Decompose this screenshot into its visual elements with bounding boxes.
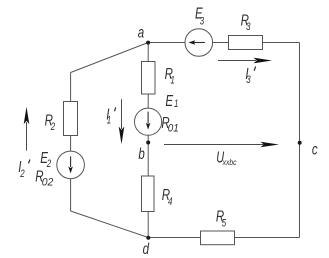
svg-text:5: 5 (222, 217, 227, 230)
svg-text:c: c (312, 140, 318, 158)
svg-text:d: d (143, 239, 150, 257)
svg-text:E: E (165, 91, 173, 109)
svg-text:3: 3 (246, 21, 251, 34)
svg-text:01: 01 (168, 123, 179, 135)
svg-text:1: 1 (107, 114, 111, 127)
svg-text:4: 4 (168, 196, 172, 209)
svg-text:xxbc: xxbc (222, 157, 237, 167)
svg-text:1: 1 (170, 74, 174, 87)
svg-text:b: b (138, 144, 145, 162)
svg-text:2: 2 (19, 168, 25, 181)
svg-text:2: 2 (46, 158, 52, 171)
svg-text:1: 1 (174, 98, 178, 111)
svg-text:3: 3 (246, 74, 251, 87)
svg-text:2: 2 (50, 121, 56, 134)
svg-text:3: 3 (200, 15, 205, 28)
svg-text:02: 02 (42, 176, 54, 188)
svg-text:a: a (138, 22, 145, 40)
